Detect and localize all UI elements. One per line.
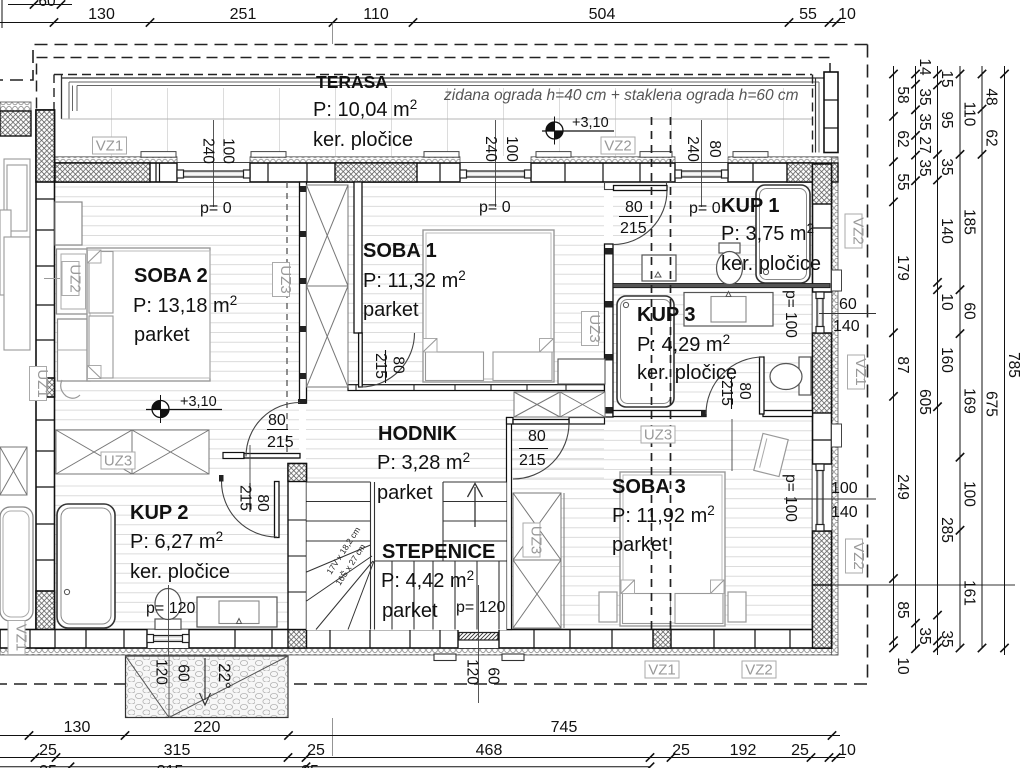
KUP3 toilet (799, 357, 811, 395)
wall stub hall door left (507, 418, 514, 425)
svg-text:p= 100: p= 100 (782, 290, 799, 338)
svg-text:468: 468 (476, 742, 503, 759)
label 60/140 east win1 (819, 313, 876, 315)
svg-text:60: 60 (485, 667, 502, 685)
label UZ1 west wall (30, 367, 47, 401)
label VZ1 south (645, 661, 679, 678)
parquet floor lines (55, 187, 812, 625)
wall KUP1/KUP3 divider (613, 284, 830, 288)
stairs stringer (370, 482, 372, 630)
door label KUP3 80/215 rotated (731, 377, 733, 409)
label UZ3 SOBA2 closet (101, 452, 135, 469)
svg-text:25: 25 (791, 742, 809, 759)
svg-text:120: 120 (153, 659, 170, 685)
window east 2 (100/140) (813, 464, 832, 531)
north wall (55, 163, 813, 182)
neighbour furniture (0, 159, 30, 350)
svg-text:58: 58 (894, 86, 911, 103)
svg-text:35: 35 (916, 88, 933, 105)
svg-text:VZ2: VZ2 (850, 217, 867, 245)
wall KUP3 south (613, 411, 706, 417)
svg-text:85: 85 (894, 601, 911, 618)
svg-text:SOBA 1: SOBA 1 (363, 240, 437, 262)
west wall dividers (36, 199, 55, 560)
svg-text:605: 605 (916, 389, 933, 415)
label VZ2 east top (845, 214, 862, 248)
svg-text:80: 80 (390, 356, 407, 374)
svg-text:22°: 22° (215, 663, 234, 689)
door label SOBA1 80/215 rotated (385, 350, 387, 383)
svg-text:10: 10 (894, 657, 911, 675)
svg-text:KUP 3: KUP 3 (637, 304, 696, 326)
boundary dashed inner (37, 58, 831, 111)
KUP2 vanity (197, 597, 277, 627)
SOBA2 dresser (58, 319, 91, 381)
KUP2 toilet (155, 619, 181, 630)
svg-text:785: 785 (1005, 352, 1022, 378)
wall stub KUP2 door (223, 453, 244, 459)
svg-text:UZ3: UZ3 (277, 265, 294, 293)
svg-text:P: 4,29 m2: P: 4,29 m2 (637, 332, 730, 356)
east wall hatch segments (813, 164, 832, 204)
label 100/140 east win2 (784, 498, 876, 500)
svg-text:80: 80 (268, 412, 286, 429)
svg-text:27: 27 (916, 136, 933, 153)
svg-text:140: 140 (831, 504, 858, 521)
wall SOBA2/corridor (300, 182, 307, 403)
svg-text:192: 192 (730, 742, 757, 759)
label VZ2 east low (846, 539, 863, 573)
svg-text:SOBA 3: SOBA 3 (612, 476, 686, 498)
svg-text:UZ3: UZ3 (104, 453, 132, 470)
svg-text:UZ1: UZ1 (34, 369, 51, 397)
stairs left flight treads (307, 482, 371, 541)
terrace roof overhang dashed (53, 75, 55, 112)
svg-text:p= 0: p= 0 (689, 200, 721, 217)
svg-text:60: 60 (839, 296, 857, 313)
svg-text:504: 504 (589, 6, 616, 23)
svg-text:25: 25 (39, 742, 57, 759)
svg-text:SOBA 2: SOBA 2 (134, 265, 208, 287)
floor level p=0 labels (213, 120, 215, 207)
svg-text:60: 60 (38, 0, 56, 10)
svg-text:62: 62 (983, 129, 1000, 146)
bottom dimension row 3 (cut) (0, 766, 650, 768)
svg-text:VZ1: VZ1 (852, 358, 869, 386)
svg-text:55: 55 (894, 173, 911, 190)
svg-text:KUP 1: KUP 1 (721, 195, 780, 217)
svg-text:62: 62 (894, 130, 911, 147)
svg-text:VZ1: VZ1 (648, 662, 676, 679)
west wall hatch top (36, 110, 55, 182)
KUP1 toilet (719, 243, 740, 253)
KUP1 shower (756, 185, 810, 283)
svg-text:p= 0: p= 0 (479, 199, 511, 216)
terrace east wall (824, 72, 838, 153)
door label KUP2 80/215 rotated (249, 483, 251, 512)
terrace slab edge (62, 118, 813, 120)
KUP1 door sill (605, 183, 667, 190)
svg-text:ker. pločice: ker. pločice (721, 253, 821, 275)
closet UZ3 (SOBA2 south) (56, 430, 132, 474)
door SOBA3 (80/215) (513, 420, 569, 425)
svg-text:100: 100 (220, 138, 237, 164)
stairs up arrow (468, 484, 483, 528)
stairs area (307, 482, 507, 631)
svg-text:VZ2: VZ2 (745, 662, 773, 679)
stairs right flight treads (443, 482, 507, 561)
right dimension chains (893, 66, 895, 648)
railing right legs (815, 78, 817, 153)
west wall hatch mid (36, 378, 55, 397)
svg-text:60: 60 (961, 302, 978, 320)
window north 3 (240/80) (675, 163, 728, 182)
level marker terrace +3,10 (546, 117, 563, 145)
svg-text:80: 80 (706, 140, 723, 158)
window east 1 (60/140) (813, 292, 832, 333)
terrace window sill plates (141, 152, 176, 158)
svg-text:UZ3: UZ3 (644, 427, 672, 444)
terrace glass railing (62, 75, 825, 119)
door KUP1 (80/215) (614, 186, 668, 191)
svg-text:60: 60 (175, 664, 192, 682)
svg-text:215: 215 (620, 220, 647, 237)
SOBA2 pillows (89, 252, 113, 314)
east window sills (832, 270, 842, 291)
svg-text:185: 185 (961, 209, 978, 235)
svg-text:KUP 2: KUP 2 (130, 502, 189, 524)
svg-text:P: 11,32 m2: P: 11,32 m2 (363, 268, 466, 292)
pebble strip east wall (832, 158, 839, 655)
bottom dimension row 2 (0, 757, 845, 759)
top partial second row (8, 4, 72, 6)
section line B (670, 117, 672, 629)
window south (KUP2, 120/60) (147, 630, 189, 649)
svg-text:+3,10: +3,10 (180, 394, 217, 410)
SOBA2 chair (61, 380, 80, 398)
label VZ1 neighbour (8, 621, 25, 655)
svg-text:35: 35 (916, 159, 933, 176)
entry steps (434, 654, 456, 661)
closet top cell SOBA1 (558, 359, 605, 384)
label VZ1 terrace (93, 137, 127, 154)
svg-text:675: 675 (983, 391, 1000, 417)
SOBA3 pillows (623, 594, 671, 624)
svg-text:p= 120: p= 120 (146, 600, 195, 617)
svg-text:parket: parket (134, 324, 190, 346)
svg-text:parket: parket (377, 482, 433, 504)
closet UZ3 hall (514, 392, 560, 417)
south wall (0, 630, 832, 649)
SOBA1 bed (423, 230, 554, 382)
svg-text:UZ3: UZ3 (528, 526, 545, 554)
pebble strip neighbour wall (0, 102, 31, 111)
svg-text:240: 240 (684, 136, 701, 162)
svg-text:VZ1: VZ1 (96, 138, 124, 155)
west wall (36, 110, 55, 648)
top dimension row (0, 22, 845, 24)
terrace floor tile lines (112, 88, 784, 156)
svg-text:P: 13,18 m2: P: 13,18 m2 (133, 293, 237, 317)
neighbour wall hatched (0, 111, 31, 136)
parapet p=120 labels (168, 585, 170, 690)
svg-text:161: 161 (961, 580, 978, 606)
svg-text:110: 110 (961, 102, 978, 127)
section line A (651, 117, 653, 629)
KUP3 shower (617, 296, 674, 407)
svg-text:10: 10 (938, 293, 955, 311)
svg-text:UZ3: UZ3 (586, 314, 603, 342)
svg-text:VZ2: VZ2 (850, 542, 867, 570)
SOBA3 nightstands (599, 592, 617, 622)
svg-text:P: 4,42 m2: P: 4,42 m2 (381, 568, 474, 592)
svg-text:parket: parket (382, 600, 438, 622)
porch slope arrow (204, 658, 206, 700)
svg-text:100: 100 (831, 480, 858, 497)
svg-text:745: 745 (551, 719, 578, 736)
svg-text:100: 100 (961, 481, 978, 507)
svg-text:215: 215 (267, 434, 294, 451)
window north 1 (240/100) (177, 163, 250, 182)
svg-text:35: 35 (916, 627, 933, 644)
svg-text:160: 160 (938, 347, 955, 373)
svg-text:130: 130 (88, 6, 115, 23)
svg-text:14: 14 (916, 58, 933, 76)
SOBA2 wardrobe (57, 249, 91, 314)
label UZ2 wardrobe (44, 278, 60, 280)
svg-text:P: 10,04 m2: P: 10,04 m2 (313, 97, 417, 121)
svg-text:VZ2: VZ2 (604, 138, 632, 155)
svg-text:80: 80 (528, 428, 546, 445)
svg-text:10: 10 (838, 6, 856, 23)
svg-text:130: 130 (64, 719, 91, 736)
SOBA1 pillows (426, 352, 484, 381)
svg-text:ker. pločice: ker. pločice (130, 561, 230, 583)
terrace roof dashed right leg (812, 75, 814, 153)
extension line SE corner (832, 584, 1015, 586)
svg-text:215: 215 (519, 452, 546, 469)
closet UZ3 SOBA3 (513, 493, 561, 560)
svg-text:140: 140 (833, 318, 860, 335)
svg-text:P: 3,75 m2: P: 3,75 m2 (721, 221, 814, 245)
closet dashed front line (286, 182, 288, 456)
svg-text:25: 25 (307, 742, 325, 759)
east wall (813, 164, 832, 648)
svg-text:HODNIK: HODNIK (378, 423, 457, 445)
svg-text:120: 120 (464, 659, 481, 685)
wall stairwell east (507, 418, 512, 630)
stairwell west wall hatch (288, 464, 307, 482)
svg-text:140: 140 (938, 218, 955, 244)
south-east corner hatch block (813, 585, 832, 648)
door SOBA1 (80/215) (359, 333, 363, 387)
svg-text:p= 120: p= 120 (456, 599, 505, 616)
svg-text:110: 110 (363, 6, 389, 23)
entry door (120/60 label) (458, 630, 499, 649)
svg-text:15: 15 (938, 70, 955, 87)
svg-text:285: 285 (938, 517, 955, 543)
svg-text:25: 25 (672, 742, 690, 759)
svg-text:P: 6,27 m2: P: 6,27 m2 (130, 529, 223, 553)
door KUP2 (80/215) (275, 482, 280, 538)
wall stairwell west (288, 464, 307, 630)
neighbour bathtub (0, 507, 33, 621)
svg-text:parket: parket (363, 299, 419, 321)
svg-text:179: 179 (894, 255, 911, 281)
svg-text:87: 87 (894, 356, 911, 373)
svg-text:80: 80 (625, 199, 643, 216)
svg-text:220: 220 (194, 719, 221, 736)
svg-text:80: 80 (254, 494, 271, 512)
svg-text:25: 25 (39, 763, 57, 768)
label VZ2 terrace (601, 137, 635, 154)
svg-text:+3,10: +3,10 (572, 115, 609, 131)
neighbour closet (0, 447, 27, 495)
svg-text:95: 95 (938, 111, 955, 128)
door SOBA2 (80/215) (244, 454, 300, 459)
south wall dividers (30, 630, 790, 649)
svg-text:240: 240 (482, 136, 499, 162)
label UZ3 hall closet (641, 426, 675, 443)
wall stub hall door right (569, 418, 605, 425)
svg-text:UZ2: UZ2 (67, 264, 84, 292)
svg-text:ker. pločice: ker. pločice (313, 129, 413, 151)
label UZ3 corridor closet (273, 263, 290, 297)
svg-text:25: 25 (301, 763, 319, 768)
svg-text:55: 55 (799, 6, 817, 23)
entry porch (126, 656, 289, 718)
svg-text:p= 0: p= 0 (200, 200, 232, 217)
svg-text:100: 100 (503, 136, 520, 162)
svg-text:215: 215 (237, 485, 254, 511)
parcel boundary dashed outer (0, 45, 868, 685)
svg-text:parket: parket (612, 534, 668, 556)
svg-text:240: 240 (200, 138, 217, 164)
label VZ1 east mid (848, 355, 865, 389)
svg-text:249: 249 (894, 474, 911, 500)
SOBA2 top cabinet (55, 202, 82, 245)
extension line x=332 (332, 23, 334, 44)
svg-text:80: 80 (736, 382, 753, 400)
svg-text:VZ1: VZ1 (13, 624, 30, 652)
wall end cap SOBA2 door (298, 399, 307, 404)
wall SOBA1/HODNIK (348, 385, 605, 391)
SOBA3 armchair (754, 433, 788, 476)
svg-text:815: 815 (157, 763, 184, 768)
pebble strip north wall (55, 157, 177, 163)
svg-text:169: 169 (961, 388, 978, 414)
svg-text:10: 10 (838, 742, 856, 759)
SOBA2 bed (87, 248, 210, 381)
wall stub SOBA1 door (354, 182, 362, 333)
label VZ2 south (742, 661, 776, 678)
svg-text:35: 35 (938, 158, 955, 175)
door KUP3 (80/215) (760, 357, 765, 414)
KUP3 washbasin (684, 293, 773, 327)
KUP1 vanity (642, 255, 676, 281)
pebble strip south wall (0, 648, 838, 655)
wall stub right of KUP3 door (763, 411, 813, 417)
svg-text:35: 35 (938, 630, 955, 647)
svg-text:215: 215 (372, 353, 389, 379)
closet UZ3 tall (SOBA1 side) (307, 185, 349, 286)
west wall hatch bottom (36, 591, 55, 648)
svg-text:STEPENICE: STEPENICE (382, 541, 495, 563)
level marker SOBA2 +3,10 (152, 395, 169, 423)
svg-text:TERASA: TERASA (316, 72, 388, 92)
svg-text:315: 315 (164, 742, 191, 759)
label UZ3 bedside closet (582, 312, 599, 346)
svg-text:zidana ograda h=40 cm + stakle: zidana ograda h=40 cm + staklena ograda … (443, 87, 799, 104)
svg-text:251: 251 (230, 6, 257, 23)
SOBA3 bed (620, 472, 725, 626)
svg-text:P: 3,28 m2: P: 3,28 m2 (377, 450, 470, 474)
north wall dividers (156, 163, 753, 182)
stairs bottom run treads (375, 561, 507, 630)
south wall hatch segments (288, 630, 307, 649)
svg-text:p= 100: p= 100 (782, 474, 799, 522)
svg-text:P: 11,92 m2: P: 11,92 m2 (612, 503, 715, 527)
bottom dimension row 1 (0, 735, 840, 737)
label UZ3 SOBA3 closet (523, 523, 540, 557)
svg-text:35: 35 (916, 113, 933, 130)
svg-text:215: 215 (718, 380, 735, 406)
window north 2 (240/100) (460, 163, 531, 182)
stairs winders (307, 545, 375, 630)
north wall hatch segments (55, 163, 150, 182)
KUP2 bathtub (57, 504, 115, 628)
svg-text:48: 48 (983, 88, 1000, 105)
wall KUP1 west (605, 244, 614, 417)
